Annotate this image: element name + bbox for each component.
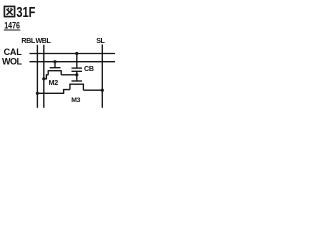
svg-text:SL: SL bbox=[96, 37, 105, 45]
svg-text:WBL: WBL bbox=[36, 37, 52, 45]
svg-text:M3: M3 bbox=[71, 97, 80, 104]
svg-text:M2: M2 bbox=[49, 79, 59, 87]
svg-text:WOL: WOL bbox=[2, 57, 22, 67]
svg-text:31F: 31F bbox=[16, 5, 35, 21]
svg-text:CB: CB bbox=[84, 65, 94, 73]
svg-text:RBL: RBL bbox=[21, 37, 35, 45]
svg-text:1476: 1476 bbox=[4, 20, 20, 30]
